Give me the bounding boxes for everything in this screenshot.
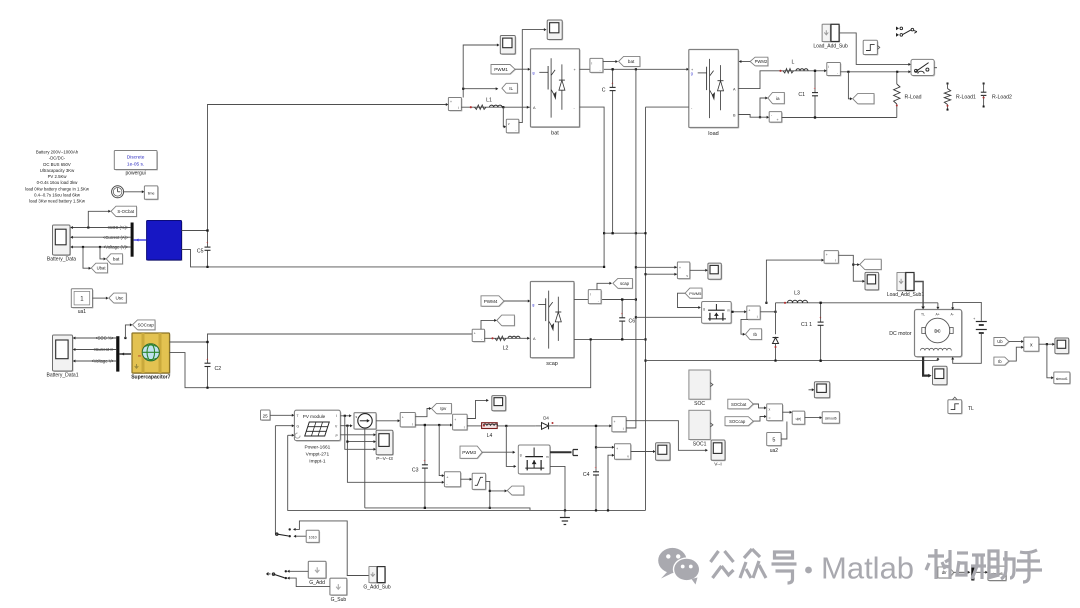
svg-text:SOCbat: SOCbat (731, 402, 747, 407)
scope V--I (712, 441, 726, 461)
bus selector supercap (116, 336, 119, 371)
svg-text:S-OCbat: S-OCbat (117, 209, 135, 214)
wire Load_Add_Sub1 to motor TL (914, 282, 923, 309)
svg-text:bat: bat (551, 131, 559, 137)
svg-text:Ultracapacity 3Kw: Ultracapacity 3Kw (40, 168, 75, 173)
svg-text:L: L (792, 60, 795, 66)
from tag SOCcap (726, 418, 754, 427)
svg-text:Battery 200V--1000Ah: Battery 200V--1000Ah (36, 150, 79, 155)
svg-text:G_Add_Sub: G_Add_Sub (363, 584, 390, 590)
current measurement (load) (828, 64, 842, 77)
load branch R-Load2 (983, 83, 985, 85)
svg-text:PV module: PV module (303, 414, 326, 419)
svg-text:A-: A- (951, 313, 954, 317)
svg-text:5: 5 (772, 437, 775, 443)
svg-text:TL: TL (921, 313, 925, 317)
scope (Ipv) (493, 397, 507, 412)
wire supercap plus (170, 341, 208, 343)
wire C4 to vmeas2 (596, 446, 614, 448)
svg-text:IL: IL (509, 86, 513, 91)
svg-text:D4: D4 (543, 416, 549, 421)
wire dIr to mux (954, 571, 970, 573)
wire meas2 to scope5 (467, 400, 488, 418)
wire vmeas to scope (690, 269, 707, 271)
constant ua1 (72, 290, 93, 309)
wire diode to meas4 (559, 425, 611, 427)
svg-text:load 3Kw need battery 1.5Kw: load 3Kw need battery 1.5Kw (29, 199, 86, 204)
wire Voltage to scope (71, 246, 131, 248)
wire ua2 to abs (781, 422, 787, 440)
manual switch (G source) (289, 528, 291, 530)
watermark wechat icon (658, 548, 686, 579)
wire mosfet2 m out (thick) (550, 451, 572, 453)
svg-text:G_Sub: G_Sub (331, 597, 347, 603)
goto tag IL (503, 84, 519, 94)
svg-text:m: m (546, 455, 549, 459)
svg-text:PWM4: PWM4 (484, 299, 498, 304)
wire meas to bat goto (603, 61, 617, 63)
diode D4 (542, 423, 549, 430)
abs block (793, 412, 806, 425)
dc source (motor field) (976, 321, 987, 323)
wire bus bar to battery (blue) (134, 239, 146, 241)
wire ua1 to Usc (93, 297, 108, 299)
from tag SOCbat (729, 400, 755, 410)
goto tag (scap current) (498, 316, 516, 327)
current measurement (motor) (748, 307, 761, 320)
inductor L2 (491, 336, 520, 351)
saturation block (473, 474, 486, 490)
wire G_Add to switch (288, 570, 309, 572)
wire SOC% to scope1 (74, 337, 117, 339)
voltage measurement (dc bus) (678, 263, 690, 280)
svg-text:Load_Add_Sub1: Load_Add_Sub1 (887, 292, 924, 298)
current measurement (upper) (825, 252, 839, 265)
svg-text:R-Load: R-Load (905, 95, 922, 101)
wire meas4 minus to bus (626, 427, 636, 429)
mosfet block (PV boost) (519, 446, 551, 475)
wire PWM1 to bat g (515, 68, 529, 70)
scope (motor speed) (934, 367, 949, 385)
current measurement (PV) (401, 414, 416, 428)
goto tag S-OCbat (112, 207, 138, 217)
current measurement (scap out) (589, 291, 602, 305)
sum block (MPPT) (445, 473, 461, 488)
svg-text:SOC: SOC (694, 401, 705, 407)
wire Ib to product (1009, 347, 1023, 361)
watermark middle dot (805, 567, 812, 574)
resistor R-Load (896, 72, 898, 84)
svg-text:L4: L4 (487, 433, 493, 439)
wire PV G input (275, 425, 293, 427)
wire load B to sum (738, 115, 768, 118)
watermark pseudo-CJK strokes (711, 551, 734, 578)
wire L1 segment (461, 106, 530, 108)
wire node to mosfet2 d (506, 426, 515, 467)
scope (SOC) (809, 389, 814, 391)
inductor L4 (482, 423, 498, 429)
breaker block (912, 60, 935, 76)
scope Battery_Data1 (54, 336, 74, 372)
wire to ia (759, 116, 761, 118)
step source G_Add (309, 562, 327, 579)
svg-text:-: - (600, 68, 601, 72)
capacitor C2 (207, 342, 209, 363)
wire battery minus (182, 250, 605, 267)
converter block scap (IGBT) (531, 283, 575, 359)
scope Battery_Data (54, 226, 72, 256)
wire mosfet2 s to rail (550, 466, 565, 510)
wire 1010 to switch (295, 535, 307, 537)
svg-text:L3: L3 (794, 291, 800, 297)
svg-text:Battery_Data1: Battery_Data1 (47, 373, 79, 379)
svg-text:1010: 1010 (309, 536, 317, 540)
svg-text:G: G (297, 424, 300, 428)
wire supercap meas to bus bar (119, 353, 131, 355)
wire SOCcap to relational (753, 417, 765, 422)
wire motor armature loop (953, 302, 982, 316)
svg-text:Imppt-1: Imppt-1 (309, 459, 326, 465)
goto tag bat (107, 255, 123, 265)
svg-text:Usc: Usc (115, 296, 124, 301)
wire meas1 to Ipv (415, 409, 430, 417)
current measurement (battery) (449, 99, 462, 112)
svg-text:+: + (748, 309, 750, 313)
svg-text:x: x (769, 407, 771, 411)
svg-text:SOCcap: SOCcap (729, 419, 746, 424)
svg-text:DC motor: DC motor (889, 331, 911, 337)
wire meas2 to L4 (467, 425, 482, 427)
svg-text:scap: scap (620, 281, 630, 286)
wire cs to meas1 (376, 420, 399, 422)
step block TL (949, 401, 963, 415)
from tag PWM4 (482, 297, 505, 307)
svg-text:+: + (614, 420, 616, 424)
svg-text:P--V--I3: P--V--I3 (376, 456, 393, 462)
wire G_Add_Sub to switch (294, 521, 369, 576)
wire product out (1039, 343, 1054, 345)
wire to goto (load current) (848, 72, 851, 99)
dc motor block (916, 311, 963, 358)
wire Ub to product (1009, 341, 1023, 343)
constant 25 (262, 411, 272, 421)
wire bat plus bus (580, 68, 590, 70)
svg-text:C1 1: C1 1 (801, 322, 812, 328)
svg-text:-: - (481, 337, 482, 341)
battery block (blue) (148, 222, 183, 262)
svg-text:PWM2: PWM2 (755, 59, 768, 64)
svg-text:DC: DC (934, 329, 941, 334)
ground symbol (564, 510, 566, 517)
svg-text:T: T (297, 414, 299, 418)
wire meas out / L3 node (760, 311, 775, 313)
wire abs to simout6 (805, 417, 822, 419)
resistor R-Load1 (947, 83, 949, 85)
wire 25 to PV T (270, 414, 293, 416)
svg-text:SOC1: SOC1 (693, 441, 707, 447)
wire saturation out (486, 481, 490, 508)
wire bus to mosfet d (636, 316, 701, 318)
wire battery plus to node (182, 105, 448, 231)
svg-text:simout6: simout6 (825, 416, 837, 420)
subsystem SOC (690, 371, 711, 400)
svg-text:g: g (532, 303, 534, 307)
converter block load (IGBT) (690, 51, 740, 129)
wire to S-OCbat tag (87, 226, 89, 228)
to-workspace simout1 (1055, 373, 1071, 385)
clock block (112, 186, 124, 198)
capacitor C (612, 69, 614, 87)
svg-text:+: + (474, 331, 476, 335)
svg-text:L1: L1 (486, 97, 492, 103)
svg-text:C5: C5 (197, 249, 204, 255)
capacitor C4 (595, 426, 597, 472)
svg-text:time: time (148, 192, 155, 196)
svg-text:+: + (450, 100, 452, 104)
svg-text:ua1: ua1 (78, 309, 87, 315)
svg-text:C4: C4 (583, 472, 590, 478)
wire PV V out (340, 425, 351, 427)
svg-text:Battery_Data: Battery_Data (47, 257, 76, 263)
wire PV minus input (288, 434, 294, 436)
wire PV P out (340, 434, 375, 436)
svg-text:+: + (679, 266, 681, 270)
scope (dc bus voltage) (709, 264, 722, 280)
svg-text:+: + (826, 253, 828, 257)
svg-text:25: 25 (263, 414, 269, 419)
wire bus to vmeas (636, 266, 678, 268)
step source G_Sub (331, 579, 348, 596)
svg-text:u|e|: u|e| (796, 417, 802, 421)
svg-text:v: v (508, 122, 510, 126)
svg-text:PWM3: PWM3 (462, 450, 476, 455)
from tag PWM3 (461, 447, 483, 459)
mosfet block (motor buck) (703, 303, 733, 325)
svg-text:I: I (336, 414, 337, 418)
svg-text:PV 2.5Kw: PV 2.5Kw (48, 174, 68, 179)
svg-text:simout1: simout1 (1056, 377, 1068, 381)
goto tag Ib (746, 330, 762, 341)
wire vmeas to scope2 (519, 30, 546, 123)
svg-text:G_Add: G_Add (309, 580, 325, 586)
wire to Ubat tag (82, 246, 84, 248)
manual switch 2 (G add/sub) (285, 570, 287, 572)
scope (motor current) (866, 273, 880, 291)
subsystem Load_Add_Sub (823, 25, 840, 42)
svg-text:g: g (691, 71, 693, 75)
svg-text:x: x (1030, 343, 1033, 349)
svg-text:+: + (777, 118, 779, 122)
wire to scap goto (597, 283, 611, 289)
wire PV rail A (365, 508, 530, 511)
svg-text:DC BUS 650V: DC BUS 650V (43, 162, 71, 167)
to-workspace simout5 (989, 567, 1007, 581)
constant 1010 (307, 531, 320, 543)
wire L4 to diode (497, 425, 535, 427)
current measurement (bat out) (591, 59, 604, 73)
inductor L3 (784, 291, 808, 304)
svg-text:Ib: Ib (753, 332, 757, 337)
wire meas to Ib tag (741, 319, 748, 334)
wire meas1 to meas2 (415, 424, 451, 426)
svg-text:A+: A+ (936, 313, 940, 317)
subsystem Load_Add_Sub1 (898, 274, 915, 292)
goto tag ia (769, 93, 785, 104)
inductor L (779, 60, 808, 74)
svg-text:scap: scap (546, 361, 558, 367)
scope P--V--I3 (377, 431, 394, 455)
wire cs minus down (364, 429, 366, 508)
svg-text:C3: C3 (412, 468, 419, 474)
wire to bat tag (99, 246, 101, 248)
svg-text:SOCcap: SOCcap (138, 323, 155, 328)
svg-text:Load_Add_Sub: Load_Add_Sub (813, 44, 848, 50)
wire Load_Add_Sub to breaker (839, 33, 910, 65)
from tag PWM5 (686, 289, 703, 299)
converter block bat (IGBT) (532, 50, 581, 128)
capacitor C1 (814, 71, 816, 93)
svg-text:R-Load1: R-Load1 (956, 95, 976, 101)
svg-text:-DC/DC-: -DC/DC- (49, 156, 66, 161)
capacitor C5 (207, 231, 209, 248)
svg-text:Supercapacitor7: Supercapacitor7 (131, 375, 170, 381)
supercapacitor block Supercapacitor7 (133, 334, 171, 374)
wire meas4 i to V-I scope (626, 421, 707, 451)
manual switch (top right) (896, 27, 899, 31)
scope (Vbat) (548, 21, 563, 41)
svg-text:bat: bat (628, 59, 635, 64)
wire meas to goto/scope (upper) (838, 255, 864, 281)
svg-text:Matlab: Matlab (821, 551, 914, 586)
voltage measurement (battery) (507, 120, 520, 133)
wire to sum (MPPT) (439, 425, 443, 476)
wire scap L2 (485, 337, 530, 339)
goto tag SOCcap (133, 321, 156, 331)
svg-text:TL: TL (968, 406, 974, 412)
wire motor m to scope (thick) (923, 357, 929, 376)
wire SOCbat to relational (753, 404, 765, 408)
svg-text:g: g (703, 307, 705, 311)
step block (load) (864, 41, 878, 55)
svg-text:v: v (686, 274, 688, 278)
wire CurrentI to scope1 (74, 349, 117, 351)
wire mosfet to meas (731, 311, 746, 313)
wire dc bus plus vertical (627, 69, 636, 428)
svg-text:Power-1661: Power-1661 (304, 445, 330, 451)
svg-text:dIr: dIr (942, 570, 947, 575)
from tag Ib2 (995, 358, 1010, 366)
svg-text:PWM1: PWM1 (494, 67, 508, 72)
goto tag scap (614, 279, 634, 289)
current measurement (PV out) (613, 418, 627, 433)
subsystem G_Add_Sub (370, 568, 386, 584)
svg-text:+: + (402, 416, 404, 420)
current measurement (PV2) (454, 415, 469, 431)
wire PWM5 to mosfet g (678, 293, 700, 307)
wire sum to saturation (461, 478, 472, 480)
goto tag Ubat (92, 264, 108, 274)
sum block (load) (770, 113, 783, 124)
goto tag bat (bus) (619, 57, 640, 67)
svg-text:Vmppt-271: Vmppt-271 (306, 452, 330, 458)
svg-text:-: - (598, 299, 599, 303)
svg-text:m: m (138, 354, 141, 358)
wire load meas in (815, 70, 826, 72)
goto tag Usc (110, 294, 128, 304)
wire load A to L (738, 71, 815, 89)
to-workspace time block (145, 187, 158, 200)
wire dc bus minus vertical (645, 107, 647, 510)
wire bottom rail (load) (782, 117, 897, 119)
voltage measurement (PV bus) (616, 445, 632, 461)
svg-text:load: load (708, 131, 718, 137)
wire supercap minus (170, 339, 591, 387)
pv module block (295, 411, 341, 441)
svg-text:PWM5: PWM5 (689, 291, 702, 296)
inductor L1 (470, 97, 502, 109)
wire scap plus out (574, 299, 588, 301)
svg-text:Ub: Ub (997, 339, 1003, 344)
svg-text:ua2: ua2 (770, 448, 779, 454)
svg-text:ia: ia (776, 96, 780, 101)
wire motor bottom bus (646, 358, 938, 361)
svg-text:s: s (356, 415, 358, 419)
to-workspace simout6 (823, 413, 840, 425)
wire PWM2 to load g (739, 61, 750, 63)
relational block (768, 405, 784, 422)
svg-text:load 0Kw battery charge in 1.: load 0Kw battery charge in 1.5Kw (25, 186, 90, 191)
scope (IL) (501, 37, 516, 56)
goto tag (motor current) (861, 260, 882, 270)
svg-text:+: + (454, 418, 456, 422)
from tag Ub (995, 338, 1010, 346)
wire to goto (scap current) (481, 320, 496, 329)
svg-text:0-0.4s 16ou load 3kw: 0-0.4s 16ou load 3kw (37, 180, 79, 185)
svg-text:C6: C6 (629, 319, 636, 325)
wire PWM3 to mosfet2 g (482, 451, 514, 453)
wire scap minus out (574, 338, 646, 340)
svg-text:Discrete: Discrete (127, 155, 145, 161)
scope (power) (1056, 339, 1070, 355)
wire SOC to scope (71, 227, 131, 229)
svg-text:=: = (769, 416, 771, 420)
current measurement (scap in) (473, 330, 485, 342)
svg-text:+: + (616, 447, 618, 451)
svg-text:V--I: V--I (714, 462, 721, 468)
wire mux to simout5 (974, 571, 987, 573)
svg-text:L2: L2 (503, 346, 509, 352)
goto tag Ipv (432, 404, 452, 414)
wire meas to IL/scope (463, 89, 497, 98)
wire VoltageV to scope1 (74, 360, 117, 362)
powergui block (115, 152, 158, 171)
svg-text:Ubat: Ubat (97, 266, 107, 271)
from tag PWM1 (492, 65, 516, 74)
wire motor top input (937, 303, 939, 309)
wire node to meas (upper) (765, 302, 767, 304)
scope (Vpv) (657, 444, 671, 462)
svg-text:bat: bat (113, 257, 120, 262)
svg-text:Ipv: Ipv (440, 406, 447, 411)
wire clock to time (124, 191, 144, 193)
from tag dIr (939, 568, 955, 579)
wire dc bus rung (604, 232, 645, 234)
wire vmeas2 to scope7 (631, 451, 655, 453)
svg-text:m: m (727, 308, 730, 312)
wire bat minus (580, 107, 605, 267)
capacitor C1 1 (820, 303, 822, 322)
capacitor C6 (621, 300, 623, 318)
